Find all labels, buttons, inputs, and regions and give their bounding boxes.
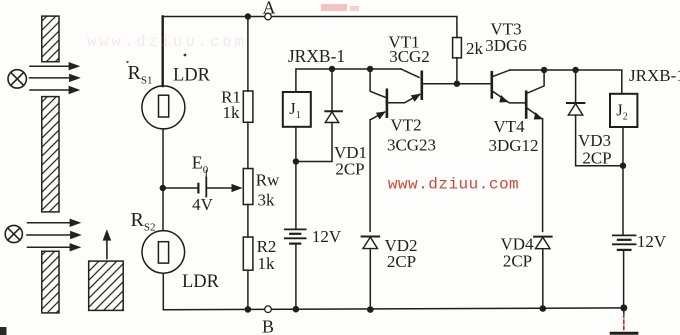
wire R1 to Rw — [247, 122, 249, 168]
svg-text:2CP: 2CP — [387, 252, 416, 271]
wire left LDR column drop — [161, 17, 163, 87]
wire LDR1 bottom to E0 tap to LDR2 top — [162, 129, 164, 231]
wire R2 to bottom rail — [247, 270, 249, 309]
svg-text:4V: 4V — [192, 195, 214, 214]
svg-text:www.dziuu.com: www.dziuu.com — [87, 33, 247, 51]
wall middle segment — [42, 97, 59, 212]
node bottom right corner junction — [620, 304, 627, 311]
svg-text:Rw: Rw — [256, 171, 280, 190]
node A terminal — [265, 13, 272, 20]
svg-text:1k: 1k — [258, 254, 276, 273]
node base junction 2k — [454, 81, 460, 87]
node top rail R1 junction — [245, 13, 251, 19]
wall upper segment — [42, 16, 59, 62]
scan speck dot 1 — [184, 54, 187, 57]
diode VD3 — [575, 70, 577, 103]
svg-text:2k: 2k — [466, 39, 484, 58]
diode VD4 — [534, 236, 552, 238]
light arrows lower — [27, 219, 82, 252]
transistor VT2 (PNP 3CG23) — [386, 90, 389, 117]
svg-text:1k: 1k — [223, 103, 241, 122]
diode VD1 — [331, 69, 333, 111]
scan speck bottom-left corner — [0, 327, 7, 335]
wire common base line — [423, 83, 491, 85]
node VD3 rail junction — [572, 67, 578, 73]
svg-text:VD3: VD3 — [578, 131, 611, 150]
ground stub — [623, 308, 625, 314]
node VT4 collector rail junction — [541, 67, 547, 73]
wire relay rail 1 — [296, 69, 401, 92]
svg-text:3CG2: 3CG2 — [389, 47, 430, 66]
wire E0 wiper arrow to Rw — [206, 187, 233, 189]
svg-text:LDR: LDR — [182, 272, 220, 292]
watermark red fragment top — [321, 4, 347, 11]
node bottom VD4 junction — [540, 305, 547, 312]
resistor R1 — [243, 91, 253, 122]
photoresistor RS2 (LDR) — [142, 231, 185, 274]
node B terminal — [265, 306, 272, 313]
transistor VT1 (PNP 3CG2) — [420, 72, 423, 99]
svg-text:3CG23: 3CG23 — [387, 136, 436, 155]
wire Rw to R2 — [247, 205, 249, 238]
wire battery to bottom rail — [623, 250, 625, 308]
svg-text:3DG6: 3DG6 — [485, 36, 527, 55]
moving object block — [89, 261, 124, 310]
potentiometer Rw — [243, 169, 253, 205]
object motion up arrow — [106, 236, 108, 259]
battery 12V right — [613, 234, 636, 236]
light arrows upper — [30, 62, 81, 94]
node J1/VD1 junction — [293, 158, 299, 164]
svg-text:www.dziuu.com: www.dziuu.com — [388, 176, 519, 194]
svg-text:JRXB-1: JRXB-1 — [288, 46, 345, 66]
wire J1 bottom to junction to battery — [295, 127, 297, 229]
lamp lower — [5, 225, 22, 242]
relay coil J1 — [283, 92, 311, 127]
transistor VT3 (NPN 3DG6) — [490, 72, 493, 97]
wire top rail A — [163, 17, 457, 38]
node E0 tap junction — [160, 185, 166, 191]
node VD1 rail junction — [329, 66, 335, 72]
wire divider column — [247, 17, 249, 92]
svg-text:JRXB-1: JRXB-1 — [629, 66, 680, 85]
resistor 2k — [453, 38, 462, 58]
relay coil J2 — [610, 94, 637, 127]
svg-text:12V: 12V — [312, 227, 342, 246]
svg-text:VT2: VT2 — [390, 116, 421, 135]
wire VT4 emitter to VD4 — [542, 119, 544, 232]
scan speck dot 2 — [126, 61, 128, 63]
wire VT2 emitter to VD2 — [369, 120, 371, 232]
svg-text:3DG12: 3DG12 — [488, 136, 538, 155]
node bottom battery junction — [293, 306, 300, 313]
battery 12V left — [285, 228, 306, 230]
svg-text:3k: 3k — [258, 191, 276, 210]
resistor R2 — [243, 237, 253, 270]
node bottom VD2 junction — [367, 306, 374, 313]
svg-text:2CP: 2CP — [335, 160, 364, 179]
node VT2 collector rail junction — [367, 66, 373, 72]
node bottom R2 junction — [245, 306, 252, 313]
wire battery to bottom rail — [295, 244, 297, 310]
wall lower segment — [42, 251, 59, 313]
svg-text:B: B — [262, 317, 274, 335]
node J2/VD3 junction — [620, 163, 626, 169]
svg-text:VT4: VT4 — [493, 117, 525, 136]
svg-text:LDR: LDR — [173, 66, 211, 86]
wire LDR2 bottom + bottom rail B — [163, 273, 624, 310]
wire J2 bottom to battery — [622, 127, 624, 235]
svg-text:2CP: 2CP — [582, 149, 611, 168]
battery E0 — [163, 187, 198, 189]
photoresistor RS1 (LDR) — [142, 86, 185, 129]
svg-text:A: A — [263, 0, 276, 18]
lamp upper — [8, 70, 26, 88]
svg-text:12V: 12V — [637, 232, 667, 251]
svg-text:2CP: 2CP — [503, 252, 532, 271]
diode VD2 — [362, 236, 380, 238]
transistor VT4 (NPN 3DG12) — [525, 92, 528, 118]
wire collector rail 2 — [510, 70, 622, 94]
